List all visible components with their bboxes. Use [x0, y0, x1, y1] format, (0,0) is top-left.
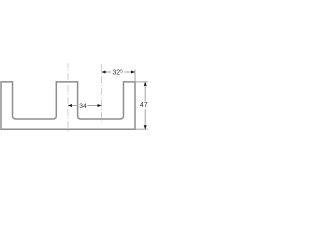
- svg-text:325: 325: [112, 69, 123, 77]
- svg-text:34: 34: [79, 103, 87, 110]
- svg-text:47: 47: [140, 102, 148, 109]
